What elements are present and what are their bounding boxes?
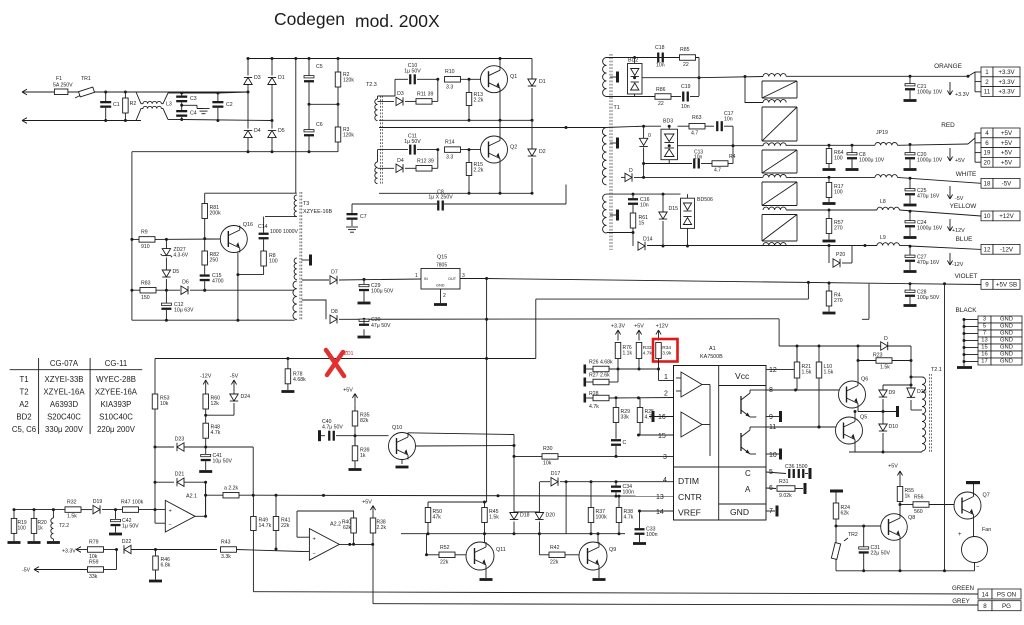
- junction: [615, 495, 618, 498]
- junction: [531, 119, 534, 122]
- resistor R38b: [616, 508, 622, 523]
- svg-text:D1: D1: [278, 75, 285, 81]
- capacitor C36: [788, 469, 795, 478]
- svg-text:D4: D4: [397, 158, 404, 164]
- svg-text:33k: 33k: [621, 415, 630, 421]
- ground C41: [199, 470, 212, 473]
- wire: [155, 358, 536, 360]
- wire: [862, 318, 869, 320]
- svg-text:330μ 200V: 330μ 200V: [45, 425, 84, 434]
- junction: [638, 368, 641, 371]
- svg-text:12: 12: [769, 367, 777, 374]
- ground C25: [904, 204, 917, 207]
- svg-text:7: 7: [769, 508, 773, 515]
- svg-text:ORANGE: ORANGE: [934, 63, 962, 70]
- wire: [690, 96, 699, 98]
- wire: [643, 126, 645, 138]
- svg-text:BLUE: BLUE: [956, 236, 973, 243]
- connector WHITE: [981, 178, 1020, 188]
- IC output transistor pair 2: [741, 427, 766, 454]
- transistor Q1: [481, 66, 518, 93]
- svg-text:T2.3: T2.3: [366, 82, 377, 88]
- svg-text:D10: D10: [889, 424, 899, 430]
- svg-text:Q6: Q6: [861, 377, 868, 383]
- tap bar T1 aux: [616, 72, 619, 83]
- resistor R43: [221, 547, 237, 553]
- junction: [352, 543, 355, 546]
- svg-text:100: 100: [834, 156, 843, 162]
- resistor R14: [445, 147, 461, 153]
- svg-text:T2: T2: [19, 388, 28, 397]
- svg-text:R10: R10: [445, 69, 455, 75]
- junction: [698, 76, 701, 79]
- resistor R47: [123, 507, 139, 512]
- wire: [296, 511, 298, 537]
- junction: [657, 368, 660, 371]
- transformer T3 secondary 1: [294, 258, 297, 280]
- svg-text:+3.3V: +3.3V: [62, 549, 76, 555]
- wire: [354, 404, 356, 411]
- wire: [540, 481, 550, 483]
- junction: [597, 532, 600, 535]
- wire: [632, 194, 634, 198]
- wire: [836, 525, 889, 527]
- wire: [974, 72, 976, 92]
- wire: [205, 238, 221, 240]
- wire: [909, 90, 911, 99]
- wire: [899, 210, 981, 216]
- svg-text:PG: PG: [1002, 603, 1011, 610]
- svg-text:15: 15: [658, 433, 666, 440]
- wire: [975, 91, 981, 93]
- svg-text:4.7k: 4.7k: [643, 351, 653, 357]
- ground C30: [358, 336, 371, 339]
- wire: [539, 554, 549, 556]
- resistor R29: [613, 408, 619, 423]
- svg-text:5A 250V: 5A 250V: [53, 83, 73, 89]
- wire: [849, 451, 922, 453]
- ground R46: [149, 580, 162, 583]
- junction: [252, 494, 255, 497]
- wire: [155, 481, 174, 483]
- wire: [868, 284, 870, 320]
- wire: [607, 96, 656, 98]
- junction: [165, 238, 168, 241]
- wire: [253, 592, 978, 594]
- svg-text:6: 6: [985, 140, 989, 147]
- transformer T3 primary: [294, 195, 297, 217]
- wire: [828, 145, 830, 148]
- svg-text:+: +: [169, 509, 172, 515]
- svg-text:100μ 50V: 100μ 50V: [371, 289, 394, 295]
- svg-text:R63: R63: [692, 115, 702, 121]
- terminator C40: [318, 430, 321, 441]
- svg-text:Q9: Q9: [609, 547, 616, 553]
- transistor Q6: [839, 377, 869, 409]
- svg-text:1000 1000V: 1000 1000V: [270, 229, 299, 235]
- svg-text:OUT: OUT: [448, 277, 457, 281]
- svg-text:CNTR: CNTR: [678, 492, 702, 502]
- resistor R76: [615, 343, 621, 359]
- wire: [417, 78, 438, 80]
- svg-text:Q15: Q15: [437, 255, 447, 261]
- wire: [271, 85, 273, 129]
- junction: [851, 144, 854, 147]
- wire: [565, 185, 567, 205]
- resistor R41: [273, 517, 279, 531]
- capacitor C3: [176, 96, 197, 103]
- transistor Q11: [466, 542, 506, 570]
- wire: [621, 176, 625, 178]
- wire: [766, 453, 779, 455]
- wire: [766, 487, 776, 490]
- wire: [899, 245, 910, 247]
- junction: [468, 119, 471, 122]
- junction: [354, 434, 357, 437]
- wire: [766, 389, 847, 391]
- diode D20: [535, 513, 543, 520]
- wire: [217, 93, 219, 101]
- wire: [416, 445, 515, 448]
- wire: [638, 359, 640, 370]
- resistor L10: [816, 362, 822, 378]
- svg-text:D3: D3: [254, 75, 261, 81]
- wire: [828, 234, 830, 240]
- svg-text:1k: 1k: [905, 494, 911, 500]
- wire: [247, 85, 249, 129]
- junction: [538, 532, 541, 535]
- svg-text:Vcc: Vcc: [735, 371, 750, 381]
- capacitor C30: [359, 319, 369, 326]
- svg-text:XZYEE-16A: XZYEE-16A: [95, 388, 138, 397]
- wire: [287, 384, 289, 390]
- junction: [565, 480, 568, 483]
- cap bar R28: [584, 394, 587, 403]
- wire: [204, 281, 206, 290]
- wire: [379, 127, 605, 129]
- resistor R81: [202, 204, 208, 219]
- wire: [975, 132, 981, 134]
- wire: [911, 376, 922, 378]
- svg-text:9: 9: [985, 282, 989, 289]
- wire: [165, 279, 167, 290]
- dual diode BD3: [661, 119, 678, 160]
- resistor R15: [466, 163, 472, 176]
- junction: [271, 150, 274, 153]
- svg-text:8: 8: [983, 603, 987, 610]
- wire: [786, 176, 875, 178]
- wire: [468, 176, 470, 194]
- diode D18: [510, 513, 518, 520]
- wire: [105, 92, 107, 101]
- wire: [182, 120, 272, 121]
- capacitor C36b: [798, 469, 805, 478]
- wire: [531, 158, 533, 193]
- wire: [461, 78, 481, 80]
- resistor R27: [593, 379, 609, 385]
- wire: [468, 79, 470, 92]
- terminator pin10: [779, 449, 782, 460]
- svg-text:82k: 82k: [360, 418, 369, 424]
- wire: [560, 481, 674, 483]
- T1 secondary row4: [763, 174, 786, 177]
- resistor R11: [416, 99, 432, 105]
- svg-text:A1: A1: [709, 346, 716, 352]
- svg-text:KA7500B: KA7500B: [700, 354, 723, 360]
- junction: [165, 319, 168, 322]
- resistor R45: [482, 508, 488, 523]
- wire: [909, 297, 911, 304]
- svg-text:GND: GND: [1000, 351, 1013, 357]
- svg-text:+5V SB: +5V SB: [996, 282, 1017, 289]
- diode D1: [268, 77, 276, 84]
- junction: [247, 91, 250, 94]
- wire: [857, 346, 859, 361]
- junction: [794, 389, 797, 392]
- wire: [239, 494, 674, 497]
- junction: [275, 548, 278, 551]
- svg-text:R43: R43: [221, 540, 231, 546]
- svg-text:S20C40C: S20C40C: [47, 413, 81, 422]
- ground C42: [109, 533, 122, 536]
- svg-text:D21: D21: [175, 472, 185, 478]
- wire: [233, 403, 235, 415]
- wire: [132, 151, 338, 153]
- wire: [13, 510, 15, 519]
- ground C33: [633, 542, 646, 545]
- svg-text:3.3k: 3.3k: [221, 554, 231, 560]
- capacitor C2: [212, 101, 232, 108]
- junction: [204, 515, 207, 518]
- svg-text:WHITE: WHITE: [956, 171, 977, 178]
- wire: [408, 433, 514, 435]
- wire: [973, 519, 975, 537]
- transformer T2.3 winding 1: [375, 99, 378, 121]
- svg-text:13: 13: [981, 337, 987, 343]
- junction: [513, 455, 516, 458]
- junction: [862, 569, 865, 572]
- ground Q11: [480, 578, 493, 581]
- terminator C36: [809, 468, 812, 479]
- wire: [649, 416, 674, 418]
- svg-text:11: 11: [769, 424, 776, 431]
- svg-text:C5: C5: [316, 64, 323, 70]
- arrow -5V: [230, 374, 239, 392]
- transistor Q2: [481, 136, 518, 163]
- svg-text:100: 100: [18, 526, 27, 532]
- wire: [379, 192, 532, 194]
- svg-text:22μ 50V: 22μ 50V: [871, 551, 891, 557]
- svg-text:T3: T3: [303, 201, 309, 207]
- resistor R17: [826, 183, 832, 198]
- wire: [161, 109, 168, 120]
- capacitor C17: [716, 121, 723, 131]
- svg-text:D5: D5: [278, 128, 285, 134]
- AC input arrow N: [22, 118, 141, 124]
- wire: [899, 540, 901, 571]
- svg-text:R11 39: R11 39: [417, 92, 433, 98]
- junction: [637, 434, 640, 437]
- svg-text:19: 19: [984, 150, 991, 157]
- svg-text:1000μ 10V: 1000μ 10V: [859, 158, 885, 164]
- wire: [155, 446, 174, 448]
- svg-text:10: 10: [984, 213, 991, 220]
- wire: [136, 92, 143, 104]
- svg-text:62k: 62k: [343, 525, 352, 531]
- terminator pin16: [652, 411, 655, 422]
- ground C8b: [846, 168, 859, 171]
- resistor R23: [876, 358, 892, 364]
- wire: [405, 167, 416, 169]
- ground R17: [823, 202, 836, 205]
- wire: [499, 93, 501, 121]
- junction: [565, 126, 568, 129]
- wire: [136, 109, 143, 121]
- wire: [233, 391, 235, 394]
- wire: [184, 446, 253, 448]
- wire: [303, 551, 309, 553]
- svg-text:10n: 10n: [724, 117, 733, 123]
- wire: [642, 77, 699, 79]
- svg-text:+3.3V: +3.3V: [998, 89, 1015, 96]
- svg-text:1μ 50V: 1μ 50V: [122, 524, 139, 530]
- GND junction: [963, 346, 966, 349]
- wire: [586, 397, 593, 399]
- wire: [640, 510, 674, 512]
- GND junction: [963, 332, 966, 335]
- svg-text:Q11: Q11: [496, 547, 506, 553]
- wire: [644, 125, 661, 127]
- wire: [698, 58, 700, 97]
- svg-text:+: +: [958, 532, 962, 538]
- terminator pin9: [779, 411, 782, 422]
- junction: [337, 103, 340, 106]
- svg-text:GND: GND: [1000, 330, 1013, 336]
- svg-text:XZYEE-16B: XZYEE-16B: [303, 209, 332, 215]
- wire: [394, 79, 396, 96]
- svg-text:Codegen: Codegen: [274, 9, 345, 29]
- wire: [828, 283, 830, 291]
- svg-text:C14: C14: [258, 224, 268, 230]
- wire: [337, 104, 339, 127]
- wire: [921, 451, 923, 452]
- ground C27: [904, 270, 917, 273]
- wire: [372, 544, 374, 603]
- wire: [590, 523, 592, 534]
- wire: [132, 238, 139, 240]
- svg-text:ZD1: ZD1: [344, 351, 354, 357]
- wire: [427, 523, 429, 534]
- diode D5: [268, 131, 276, 138]
- ground Q15: [434, 303, 447, 306]
- wire: [353, 533, 355, 544]
- wire: [662, 221, 664, 246]
- svg-text:10n: 10n: [681, 104, 690, 110]
- svg-text:14: 14: [982, 591, 989, 598]
- junction: [33, 508, 36, 511]
- wire: [531, 59, 533, 80]
- junction: [967, 75, 970, 78]
- wire: [696, 57, 700, 59]
- svg-text:1.1k: 1.1k: [623, 351, 633, 357]
- resistor R40: [342, 518, 357, 533]
- junction: [236, 319, 239, 322]
- svg-text:4.7k: 4.7k: [589, 404, 599, 410]
- svg-text:1k: 1k: [38, 526, 44, 532]
- svg-text:L3: L3: [166, 102, 172, 108]
- resistor R61: [630, 213, 636, 228]
- wire: [835, 559, 837, 571]
- junction: [275, 494, 278, 497]
- junction: [637, 396, 640, 399]
- junction: [632, 231, 635, 234]
- svg-text:C18: C18: [655, 45, 665, 51]
- inductor L9: [877, 243, 899, 246]
- svg-text:R23: R23: [873, 353, 883, 359]
- svg-text:1μ 50V: 1μ 50V: [404, 139, 421, 145]
- resistor R52: [439, 552, 455, 558]
- T1 secondary row5: [763, 207, 786, 210]
- ground C29: [358, 302, 371, 305]
- diode D23: [175, 437, 185, 452]
- T1 secondary row3: [763, 143, 786, 146]
- wire: [395, 78, 408, 80]
- wire: [909, 262, 911, 270]
- junction: [425, 553, 428, 556]
- svg-text:470μ 16V: 470μ 16V: [917, 260, 940, 266]
- svg-text:D15: D15: [669, 206, 679, 212]
- svg-text:D: D: [884, 336, 888, 342]
- wire: [165, 290, 167, 303]
- resistor R56: [913, 502, 929, 508]
- transistor Q9: [579, 542, 616, 570]
- wire: [195, 515, 206, 517]
- svg-text:2: 2: [985, 79, 989, 86]
- junction: [322, 494, 325, 497]
- svg-text:2.2k: 2.2k: [474, 168, 484, 174]
- wire: [468, 150, 470, 163]
- arrow +3.3V out: [947, 82, 969, 98]
- wire: [247, 59, 249, 76]
- T1 Z winding 5: [762, 215, 797, 242]
- svg-text:D6: D6: [182, 280, 189, 286]
- svg-text:Q8: Q8: [908, 515, 915, 521]
- wire: [401, 533, 625, 535]
- svg-text:4.7k: 4.7k: [624, 515, 634, 521]
- wire: [432, 167, 438, 169]
- wire: [659, 380, 674, 382]
- wire: [586, 368, 593, 370]
- capacitor C19: [682, 92, 689, 102]
- wire: [354, 461, 356, 468]
- wire: [615, 492, 617, 496]
- svg-text:2.2k: 2.2k: [474, 98, 484, 104]
- inductor L3 bottom winding: [143, 106, 161, 108]
- wire: [639, 423, 641, 436]
- junction: [818, 345, 821, 348]
- terminator Q6/Q5: [896, 406, 899, 417]
- junction: [115, 548, 118, 551]
- wire: [828, 306, 830, 312]
- wire: [828, 210, 830, 219]
- capacitor C8b: [847, 153, 857, 160]
- svg-text:D5: D5: [173, 269, 180, 275]
- resistor R50: [425, 508, 431, 523]
- wire: [354, 436, 356, 446]
- svg-text:D9: D9: [889, 390, 896, 396]
- wire: [818, 346, 820, 362]
- wire: [598, 570, 600, 578]
